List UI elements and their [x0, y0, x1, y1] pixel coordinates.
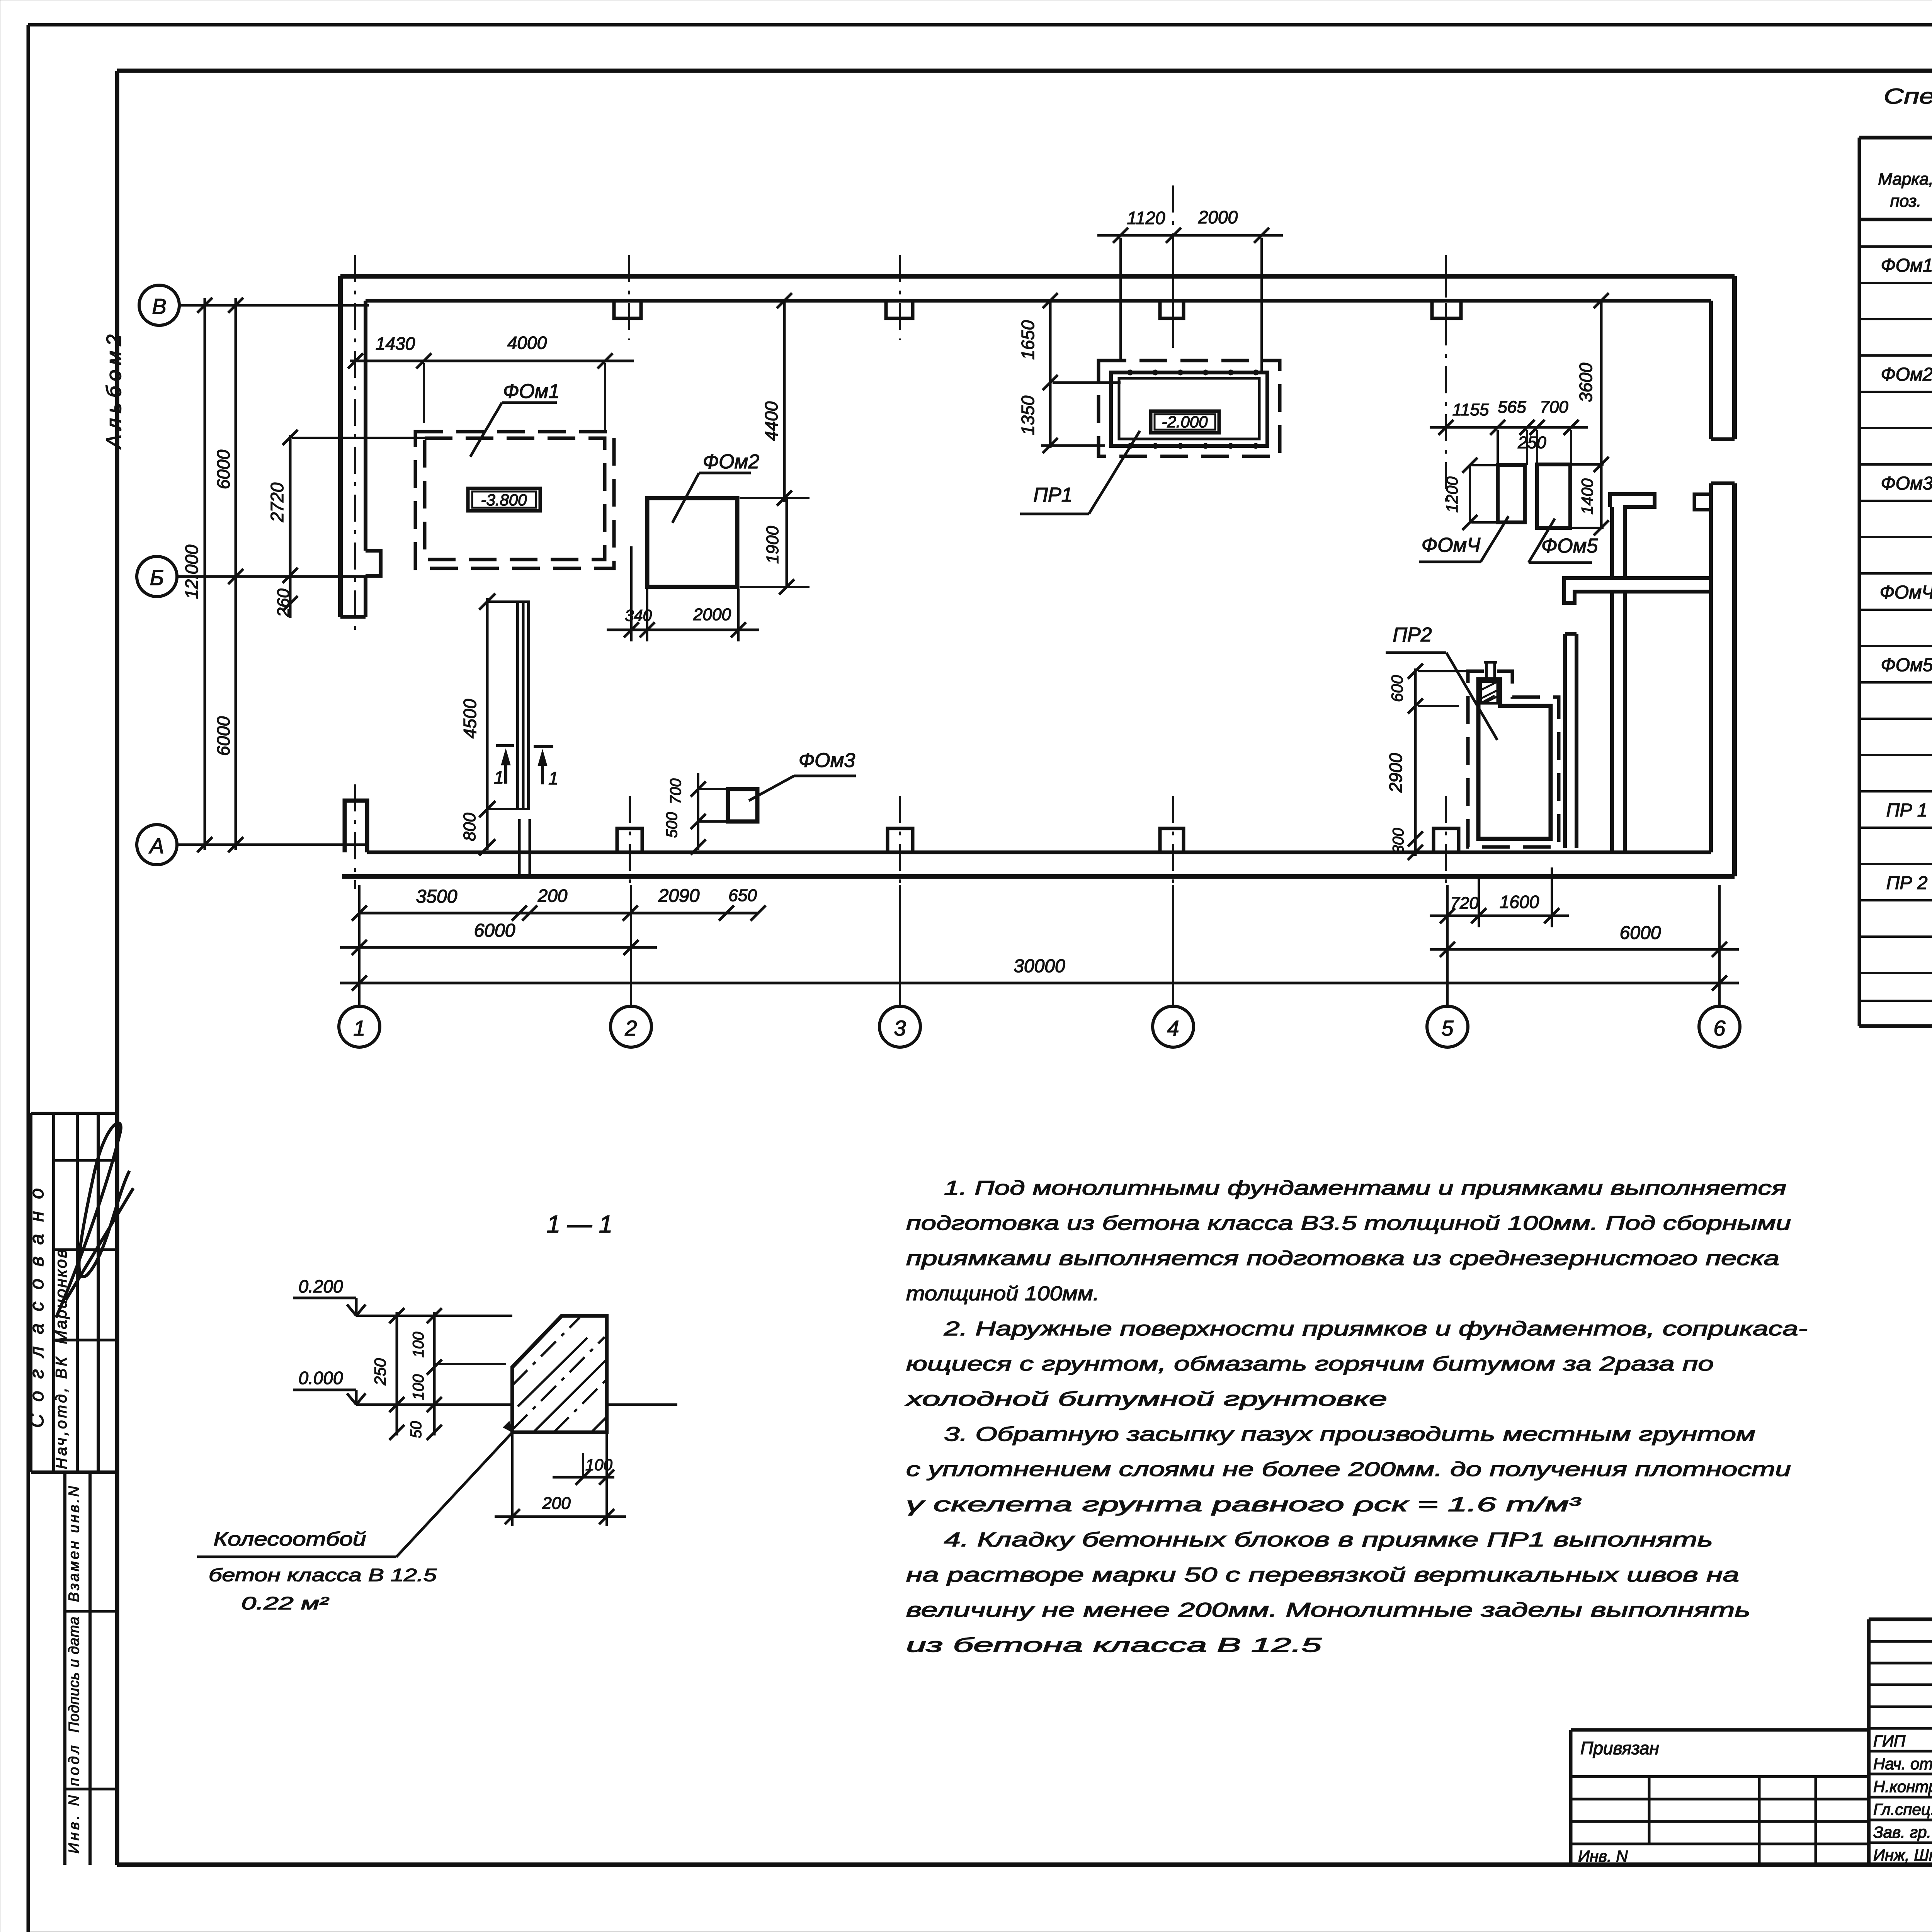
interior partition A: [1565, 632, 1577, 636]
ПР2 hatched corner square: [1481, 682, 1498, 703]
svg-text:1155: 1155: [1452, 400, 1489, 419]
svg-text:подготовка из бетона класса: подготовка из бетона класса В3.5 толщино…: [906, 1212, 1791, 1235]
svg-text:Н.контр.: Н.контр.: [1873, 1777, 1932, 1796]
section bottom dims 100 / 200: [582, 1453, 584, 1477]
foundation strip line right: [529, 819, 531, 876]
dimension 1900 right of ФОм2: [786, 498, 788, 587]
axis line through bottom pilaster: [899, 796, 901, 889]
svg-text:0.22 м²: 0.22 м²: [241, 1593, 330, 1613]
bottom wall pilaster at column x=2329: [888, 828, 913, 852]
axis line through bottom pilaster: [629, 796, 631, 889]
svg-text:1900: 1900: [763, 526, 782, 564]
ПР1 inner rectangle: [1119, 378, 1259, 439]
dims 1120 / 2000 above ПР1: [1097, 234, 1283, 237]
axis line column 1 upper: [354, 255, 356, 634]
svg-text:1350: 1350: [1018, 395, 1038, 435]
right wall small pilaster tab: [1694, 494, 1711, 510]
ПР2 inner thick outline: [1478, 679, 1551, 839]
svg-text:6: 6: [1713, 1016, 1726, 1040]
svg-text:Инв. N: Инв. N: [1578, 1847, 1628, 1865]
svg-text:ФОм3: ФОм3: [1881, 473, 1932, 494]
pit ПР2 outer dashed outline: [1468, 671, 1559, 847]
dims 600 / 2900 / 300 left of ПР2: [1414, 668, 1417, 856]
svg-text:200: 200: [537, 886, 568, 906]
svg-text:4500: 4500: [460, 699, 480, 738]
svg-text:Подпись и дата: Подпись и дата: [66, 1617, 82, 1733]
svg-text:ФОм3: ФОм3: [799, 749, 855, 772]
dim 1200 left of ФОм4: [1469, 465, 1471, 522]
svg-text:3. Обратную засыпку пазух: 3. Обратную засыпку пазух производить ме…: [944, 1423, 1755, 1446]
left wall end cap: [340, 615, 366, 619]
label ПР1 underline: [1020, 513, 1089, 515]
svg-text:Спецификация к схеме распол: Спецификация к схеме расположения фундам…: [1884, 84, 1932, 108]
dims 1155 565 700 250: [1430, 426, 1588, 429]
svg-text:γ скелета грунта равного ρ: γ скелета грунта равного ρск = 1.6 т/м³: [906, 1493, 1582, 1516]
label ПР2 leader: [1446, 653, 1497, 740]
svg-text:1: 1: [494, 767, 504, 787]
axis circle В: [139, 285, 179, 325]
outer border left: [27, 25, 30, 1932]
svg-text:4000: 4000: [507, 333, 547, 353]
svg-text:1120: 1120: [1127, 208, 1165, 228]
hatch lines solid: [518, 1338, 607, 1432]
foundation ФОм1 inner dashed rectangle: [425, 438, 605, 560]
svg-text:650: 650: [728, 886, 757, 905]
axis line through bottom pilaster: [1172, 796, 1174, 889]
svg-text:ПР2: ПР2: [1393, 624, 1432, 646]
axis А line: [177, 844, 367, 846]
hatch lines dash-dot: [512, 1318, 607, 1432]
svg-text:0.200: 0.200: [298, 1276, 343, 1296]
bottom wall pilaster at column x=3036: [1160, 828, 1184, 852]
svg-text:ФОм2: ФОм2: [1881, 364, 1932, 385]
ПР1 middle rectangle: [1111, 372, 1267, 446]
signature table rows: [1869, 1640, 1932, 1643]
axis line through top pilaster: [899, 255, 901, 340]
svg-text:2900: 2900: [1386, 753, 1406, 793]
small table left of title block: [1571, 1728, 1869, 1732]
section vertical dims 250 / 100 100 50: [396, 1312, 398, 1435]
svg-text:ющиеся с грунтом, обмазать: ющиеся с грунтом, обмазать горячим битум…: [906, 1353, 1714, 1375]
svg-text:6000: 6000: [213, 449, 233, 489]
dim 720 / 1600 below ПР2: [1430, 915, 1569, 917]
dimension 340 / 2000 below ФОм2: [607, 629, 759, 631]
svg-text:1430: 1430: [376, 333, 415, 354]
svg-text:4: 4: [1167, 1016, 1179, 1040]
svg-text:3: 3: [894, 1016, 906, 1040]
axis line through top pilaster: [1445, 255, 1447, 340]
spec table grid: [1859, 136, 1932, 139]
svg-text:ФОм1: ФОм1: [1881, 255, 1932, 276]
dim 3600 vertical: [1600, 301, 1603, 528]
axis circle А: [137, 825, 177, 865]
svg-text:-3.800: -3.800: [481, 491, 527, 509]
section arrows 1-1: [496, 744, 514, 747]
top wall pilaster at column x=2329: [886, 301, 913, 318]
left vertical dimension line 12000: [204, 298, 206, 850]
label ФОм3 leader: [749, 776, 794, 801]
svg-text:ФОм5: ФОм5: [1881, 655, 1932, 675]
svg-text:толщиной 100мм.: толщиной 100мм.: [906, 1282, 1099, 1305]
dim 1400 right of ФОм5: [1594, 457, 1609, 472]
svg-text:1. Под монолитными фундамен: 1. Под монолитными фундаментами и приямк…: [944, 1177, 1786, 1199]
svg-text:100: 100: [410, 1374, 427, 1400]
svg-text:250: 250: [371, 1358, 389, 1386]
svg-text:1: 1: [548, 768, 558, 788]
elevation box -3.800 outer: [468, 488, 540, 511]
foundation strip line left: [518, 819, 521, 876]
label ФОм5 underline: [1529, 561, 1592, 564]
elevation box -2.000 outer: [1151, 411, 1219, 433]
dim row 6000 right: [1430, 948, 1739, 951]
svg-text:30000: 30000: [1014, 956, 1065, 976]
dim row 6000 left: [340, 946, 657, 949]
svg-text:1650: 1650: [1018, 320, 1038, 360]
foundation ФОм4 rectangle: [1498, 465, 1525, 522]
svg-text:6000: 6000: [474, 920, 515, 941]
dims 1650 / 1350 left of ПР1: [1049, 300, 1052, 448]
svg-text:Колесоотбой: Колесоотбой: [214, 1528, 366, 1550]
ПР2 pipe symbol: [1484, 662, 1497, 679]
svg-text:0.000: 0.000: [298, 1368, 343, 1388]
axis line through top pilaster: [1172, 255, 1174, 340]
svg-text:Гл.спец.: Гл.спец.: [1873, 1800, 1932, 1818]
leader to block: [396, 1432, 512, 1557]
label ПР1 leader: [1089, 431, 1140, 514]
svg-text:6000: 6000: [213, 716, 233, 756]
bottom wall: [342, 874, 1735, 879]
svg-text:3500: 3500: [416, 886, 457, 907]
line at level 0.000 right of block: [607, 1403, 677, 1406]
axis line through bottom pilaster: [1445, 796, 1447, 889]
svg-text:2000: 2000: [1198, 207, 1238, 227]
svg-text:Инв. N подл: Инв. N подл: [66, 1745, 82, 1854]
inner frame left: [115, 71, 119, 1865]
top wall pilaster at column x=1628: [614, 301, 641, 318]
axis line through top pilaster: [628, 255, 630, 340]
svg-text:приямками выполняется подгот: приямками выполняется подготовка из сред…: [906, 1247, 1779, 1270]
upper left stamp table: [31, 1112, 117, 1115]
svg-text:2000: 2000: [693, 605, 731, 624]
svg-text:ПР1: ПР1: [1033, 484, 1072, 506]
column circles 1-6: [358, 885, 361, 1006]
label ФОм2 underline: [699, 472, 751, 474]
interior partition B with top flange: [1610, 494, 1655, 578]
svg-text:Б: Б: [150, 565, 164, 590]
svg-text:1400: 1400: [1578, 478, 1596, 515]
axis circle Б: [137, 556, 177, 597]
svg-text:4400: 4400: [761, 401, 781, 441]
label ФОм1 underline: [502, 401, 557, 404]
dim row 2090 / 650: [622, 905, 638, 920]
left vertical dimension line 6000+6000: [235, 298, 237, 850]
interior wall horizontal (x 4048-4428, y 1496-1531): [1564, 578, 1711, 603]
left wall: [338, 276, 343, 617]
svg-text:с уплотнением слоями не бо: с уплотнением слоями не более 200мм. до …: [906, 1458, 1791, 1481]
svg-text:Нач. отд: Нач. отд: [1873, 1755, 1932, 1773]
svg-text:2: 2: [624, 1016, 637, 1040]
dimension 4400 (wall to ФОм2 top): [783, 301, 786, 502]
ПР1 anchor dots: [1128, 370, 1133, 375]
svg-text:Нач,отд, ВК: Нач,отд, ВК: [53, 1356, 70, 1469]
svg-text:700: 700: [667, 779, 684, 804]
label ФОм4 underline: [1419, 561, 1481, 563]
top wall pilaster at column x=3742: [1432, 301, 1461, 318]
lower left stamp table: [63, 1472, 66, 1865]
axis line column 4 extended up: [1172, 185, 1174, 348]
svg-text:260: 260: [274, 588, 293, 617]
top wall pilaster at column x=3036: [1160, 301, 1184, 318]
label ФОм4 leader: [1481, 516, 1509, 562]
svg-text:340: 340: [625, 606, 652, 624]
svg-text:ПР 2: ПР 2: [1886, 873, 1928, 893]
svg-text:на растворе марки 50 с пе: на растворе марки 50 с перевязкой вертик…: [906, 1564, 1739, 1586]
bottom wall pilaster at column x=1630: [617, 828, 642, 852]
foundation ФОм2 square: [647, 498, 737, 587]
svg-text:ФОмЧ: ФОмЧ: [1880, 582, 1932, 603]
svg-text:величину не менее 200мм. М: величину не менее 200мм. Монолитные заде…: [906, 1599, 1750, 1621]
label ФОм5 leader: [1529, 519, 1555, 563]
top wall outer line: [340, 274, 1735, 279]
dim row 30000: [340, 982, 1739, 985]
svg-text:2090: 2090: [658, 886, 700, 906]
left wall pilaster at Б: [366, 551, 381, 576]
svg-text:250: 250: [1517, 433, 1546, 452]
axis Б line: [177, 575, 367, 578]
outer border bottom: [28, 1932, 1932, 1932]
svg-text:ФОм1: ФОм1: [503, 380, 560, 403]
dim row 3500 / 200: [359, 912, 758, 915]
dimension 2720 / 260: [289, 435, 292, 618]
svg-text:из бетона класса В 12.5: из бетона класса В 12.5: [906, 1634, 1322, 1656]
svg-text:5: 5: [1441, 1016, 1454, 1040]
svg-text:Инж, Шк.: Инж, Шк.: [1873, 1846, 1932, 1864]
elevation box -2.000 inner: [1155, 414, 1215, 430]
foundation ФОм1 outer dashed rectangle: [415, 432, 614, 568]
svg-text:700: 700: [1540, 398, 1568, 417]
svg-text:-2.000: -2.000: [1162, 413, 1208, 431]
svg-text:ФОм2: ФОм2: [703, 451, 759, 473]
svg-text:200: 200: [542, 1494, 571, 1513]
svg-text:720: 720: [1450, 894, 1479, 913]
dimension 1430 / 4000 above ФОм1: [350, 360, 634, 362]
bottom-left wall stub at column 1: [345, 801, 367, 852]
svg-text:Привязан: Привязан: [1580, 1738, 1659, 1758]
svg-text:12.000: 12.000: [182, 544, 202, 599]
foundation ФОм3 square: [728, 789, 757, 821]
axis В line: [179, 304, 369, 307]
axis line column 5 extended up: [1445, 270, 1447, 506]
label ФОм3 underline: [794, 775, 856, 777]
svg-text:1 — 1: 1 — 1: [547, 1210, 613, 1238]
svg-text:ФОмЧ: ФОмЧ: [1422, 534, 1481, 556]
svg-text:300: 300: [1390, 828, 1407, 854]
pit ПР1 outer dashed rectangle: [1099, 361, 1280, 456]
bottom wall pilaster at column x=3742: [1434, 828, 1459, 852]
foundation ФОм5 rectangle: [1537, 464, 1570, 528]
svg-text:ПР 1: ПР 1: [1886, 800, 1928, 821]
ФОм3 adjacent thin rectangle: [698, 789, 728, 821]
svg-text:1: 1: [353, 1016, 365, 1040]
title block top: [1869, 1617, 1932, 1621]
wheel stop block cross-section: [512, 1316, 607, 1432]
svg-text:4. Кладку бетонных блоков: 4. Кладку бетонных блоков в приямке ПР1 …: [944, 1529, 1713, 1551]
svg-text:1600: 1600: [1500, 892, 1539, 912]
inner frame bottom: [117, 1862, 1932, 1867]
svg-text:565: 565: [1498, 398, 1526, 417]
svg-text:800: 800: [460, 813, 479, 841]
elevation box -3.800 inner: [472, 492, 536, 508]
label ФОм1 leader: [470, 403, 502, 457]
axis line column 1 lower: [354, 784, 356, 889]
svg-text:2. Наружные поверхности при: 2. Наружные поверхности приямков и фунда…: [944, 1318, 1808, 1340]
svg-text:6000: 6000: [1620, 923, 1661, 943]
svg-text:бетон класса В 12.5: бетон класса В 12.5: [209, 1565, 437, 1585]
svg-text:50: 50: [408, 1421, 425, 1439]
svg-text:500: 500: [663, 812, 680, 838]
inner frame top: [117, 69, 1932, 73]
label ПР2 underline: [1386, 651, 1446, 654]
dims 700/500 left of ФОм3: [697, 773, 699, 850]
svg-text:ФОм5: ФОм5: [1541, 535, 1598, 557]
svg-text:А: А: [148, 833, 164, 858]
section cut trace line (triple) with dimension 4500: [516, 602, 519, 809]
top wall inner line: [366, 299, 1711, 303]
svg-text:100: 100: [585, 1456, 613, 1474]
svg-text:2720: 2720: [267, 482, 287, 522]
label ФОм2 leader: [672, 473, 699, 523]
svg-text:ГИП: ГИП: [1873, 1732, 1906, 1750]
svg-text:холодной битумной грунтовке: холодной битумной грунтовке: [904, 1388, 1387, 1410]
approval signature squiggle: [56, 1123, 133, 1318]
svg-text:100: 100: [410, 1332, 427, 1358]
outer border top: [28, 23, 1932, 27]
right wall upper segment: [1732, 276, 1737, 439]
svg-text:В: В: [152, 294, 166, 318]
title block left: [1867, 1619, 1871, 1865]
svg-text:600: 600: [1388, 675, 1406, 702]
svg-text:Марка,: Марка,: [1878, 170, 1932, 189]
svg-text:Зав. гр.: Зав. гр.: [1873, 1823, 1931, 1841]
right wall lower segment: [1732, 483, 1737, 876]
svg-text:поз.: поз.: [1890, 192, 1922, 211]
svg-text:3600: 3600: [1576, 362, 1596, 402]
